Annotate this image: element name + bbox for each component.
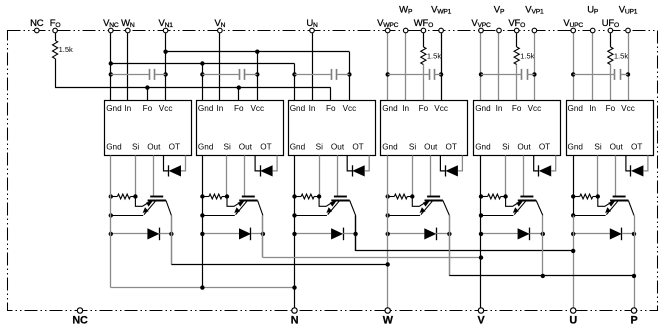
svg-text:OT: OT xyxy=(446,143,457,152)
svg-text:W: W xyxy=(383,314,394,326)
svg-text:Vcc: Vcc xyxy=(159,104,173,113)
svg-text:Gnd: Gnd xyxy=(382,143,398,152)
svg-text:1.5k: 1.5k xyxy=(59,45,73,54)
svg-text:Vcc: Vcc xyxy=(250,104,264,113)
svg-text:Fo: Fo xyxy=(143,104,153,113)
svg-text:Out: Out xyxy=(424,143,438,152)
svg-text:Gnd: Gnd xyxy=(198,143,214,152)
svg-text:1.5k: 1.5k xyxy=(427,52,441,61)
svg-text:In: In xyxy=(216,104,223,113)
svg-text:Si: Si xyxy=(594,143,601,152)
svg-text:U: U xyxy=(569,314,577,326)
svg-text:Gnd: Gnd xyxy=(290,143,306,152)
svg-text:Si: Si xyxy=(224,143,231,152)
svg-text:Fo: Fo xyxy=(512,104,522,113)
svg-text:Fo: Fo xyxy=(419,104,429,113)
svg-text:OT: OT xyxy=(631,143,642,152)
svg-text:OT: OT xyxy=(260,143,271,152)
svg-text:Out: Out xyxy=(239,143,253,152)
svg-text:Fo: Fo xyxy=(326,104,336,113)
svg-text:OT: OT xyxy=(352,143,363,152)
svg-text:Vcc: Vcc xyxy=(621,104,635,113)
svg-text:1.5k: 1.5k xyxy=(614,52,628,61)
svg-text:P: P xyxy=(630,314,637,326)
svg-text:Si: Si xyxy=(132,143,139,152)
svg-text:NC: NC xyxy=(72,314,88,326)
svg-text:Gnd: Gnd xyxy=(106,143,122,152)
svg-text:Gnd: Gnd xyxy=(568,104,584,113)
svg-text:In: In xyxy=(124,104,131,113)
svg-text:V: V xyxy=(477,314,485,326)
svg-text:Si: Si xyxy=(316,143,323,152)
svg-text:OT: OT xyxy=(539,143,550,152)
svg-text:Si: Si xyxy=(502,143,509,152)
svg-text:Gnd: Gnd xyxy=(568,143,584,152)
svg-text:Out: Out xyxy=(331,143,345,152)
svg-text:Fo: Fo xyxy=(234,104,244,113)
svg-text:Vcc: Vcc xyxy=(434,104,448,113)
svg-text:In: In xyxy=(496,104,503,113)
svg-text:Si: Si xyxy=(409,143,416,152)
svg-text:Vcc: Vcc xyxy=(343,104,357,113)
svg-text:N: N xyxy=(291,314,299,326)
svg-text:Gnd: Gnd xyxy=(382,104,398,113)
svg-text:Gnd: Gnd xyxy=(106,104,122,113)
svg-text:In: In xyxy=(309,104,316,113)
svg-text:Out: Out xyxy=(610,143,624,152)
svg-text:In: In xyxy=(402,104,409,113)
svg-text:Gnd: Gnd xyxy=(475,104,491,113)
svg-text:Vcc: Vcc xyxy=(528,104,542,113)
svg-text:Fo: Fo xyxy=(606,104,616,113)
svg-text:Out: Out xyxy=(517,143,531,152)
svg-text:OT: OT xyxy=(169,143,180,152)
svg-text:Gnd: Gnd xyxy=(198,104,214,113)
svg-text:Gnd: Gnd xyxy=(475,143,491,152)
svg-text:NC: NC xyxy=(30,18,44,29)
svg-text:Gnd: Gnd xyxy=(290,104,306,113)
svg-text:In: In xyxy=(589,104,596,113)
svg-text:Out: Out xyxy=(147,143,161,152)
svg-text:1.5k: 1.5k xyxy=(520,52,534,61)
